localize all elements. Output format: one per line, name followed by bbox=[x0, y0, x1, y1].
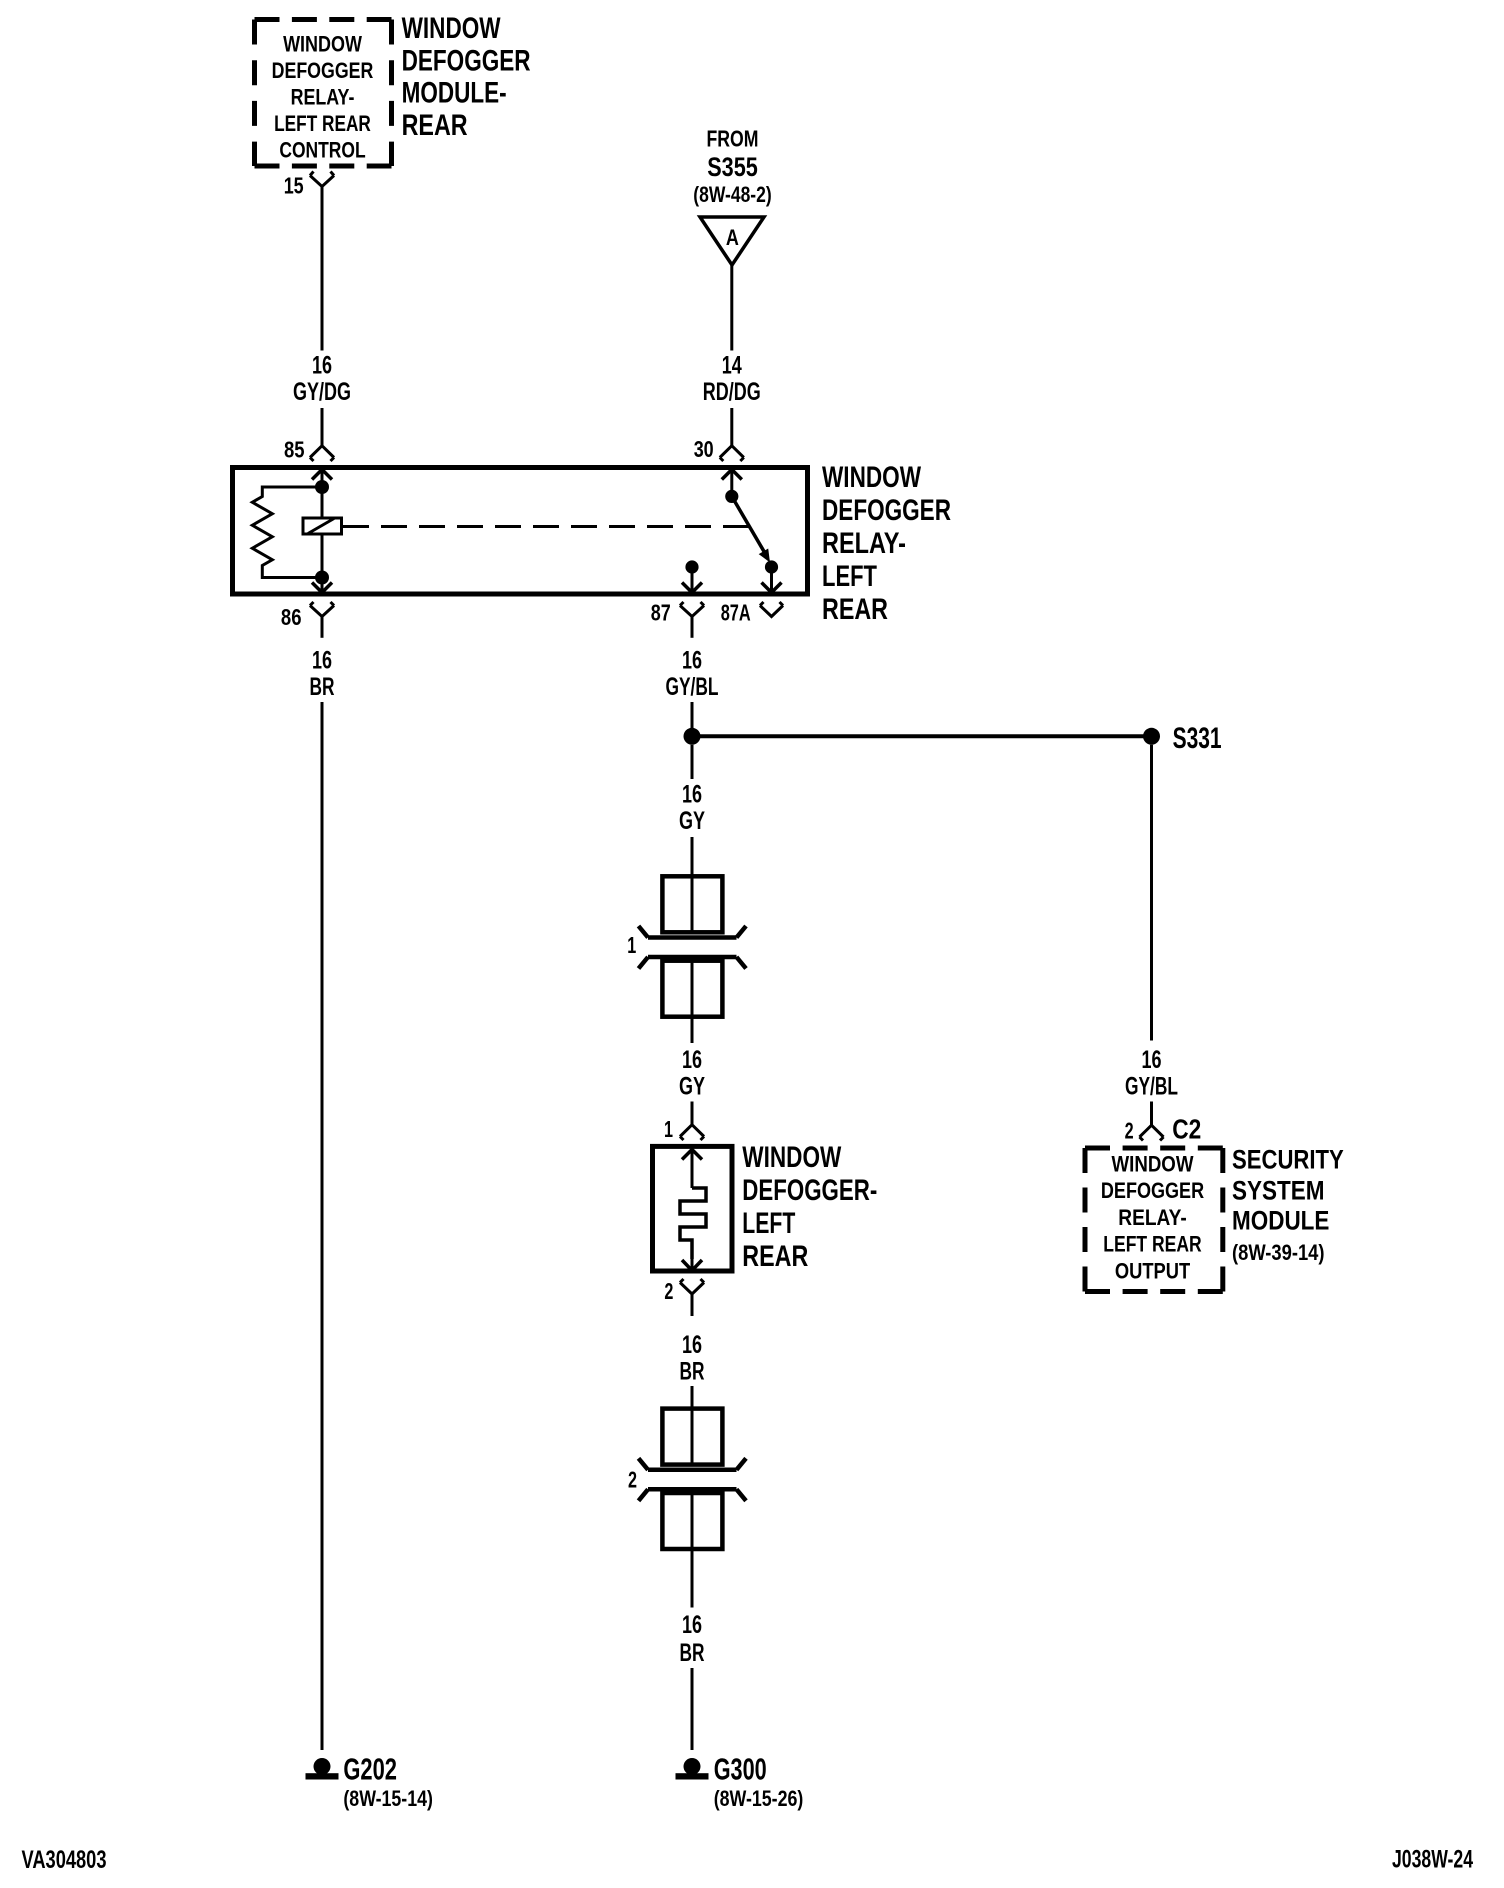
long wire to G202 bbox=[321, 702, 324, 1750]
defogger pin 2 connector bbox=[664, 1278, 704, 1316]
wire to connector 1 bbox=[691, 837, 694, 876]
pin 86 connector bbox=[281, 602, 334, 638]
svg-text:WINDOW: WINDOW bbox=[822, 461, 921, 494]
svg-text:GY/BL: GY/BL bbox=[666, 673, 719, 701]
pin 30 connector bbox=[694, 436, 744, 462]
svg-text:G202: G202 bbox=[343, 1752, 397, 1787]
security box internal text bbox=[1101, 1152, 1204, 1284]
dashed actuation link bbox=[343, 525, 749, 528]
svg-text:15: 15 bbox=[284, 173, 304, 199]
svg-text:DEFOGGER-: DEFOGGER- bbox=[742, 1174, 877, 1207]
splice triangle A bbox=[700, 217, 764, 265]
svg-text:BR: BR bbox=[680, 1358, 705, 1386]
wire pin15 to label 16 GY/DG bbox=[321, 187, 324, 351]
switch arm with arrowhead bbox=[732, 496, 770, 562]
pin 87 connector bbox=[651, 600, 704, 638]
svg-text:WINDOW: WINDOW bbox=[742, 1141, 841, 1174]
svg-text:DEFOGGER: DEFOGGER bbox=[1101, 1178, 1204, 1203]
wire to G300 bbox=[691, 1668, 694, 1750]
svg-text:2: 2 bbox=[664, 1278, 673, 1304]
contact dot 87A bbox=[765, 560, 778, 573]
svg-text:S355: S355 bbox=[707, 152, 758, 182]
svg-text:REAR: REAR bbox=[742, 1240, 808, 1273]
svg-text:(8W-39-14): (8W-39-14) bbox=[1232, 1240, 1325, 1265]
label: WINDOW DEFOGGER MODULE-REAR bbox=[402, 12, 531, 142]
inline connector 2 bbox=[628, 1409, 746, 1549]
svg-text:LEFT REAR: LEFT REAR bbox=[274, 111, 371, 136]
svg-text:BR: BR bbox=[310, 673, 335, 701]
svg-text:SECURITY: SECURITY bbox=[1232, 1145, 1344, 1175]
wire to pin 2 C2 bbox=[1150, 1102, 1153, 1126]
svg-text:16: 16 bbox=[312, 352, 332, 380]
wire label 16 GY/BL (center) bbox=[666, 647, 719, 702]
svg-text:DEFOGGER: DEFOGGER bbox=[272, 58, 374, 83]
pin 2 connector C2 bbox=[1125, 1114, 1202, 1145]
wire connector 1 down bbox=[691, 1017, 694, 1043]
wire label 16 BR (bottom) bbox=[680, 1611, 705, 1667]
junction dot 85 bbox=[315, 480, 329, 494]
svg-text:RELAY-: RELAY- bbox=[822, 527, 906, 560]
label: SECURITY SYSTEM MODULE (8W-39-14) bbox=[1232, 1145, 1344, 1265]
svg-text:16: 16 bbox=[682, 1611, 702, 1639]
module box internal text bbox=[272, 31, 374, 162]
wire label to pin 30 bbox=[730, 408, 733, 446]
svg-text:16: 16 bbox=[682, 1046, 702, 1074]
svg-text:14: 14 bbox=[722, 352, 742, 380]
wire label 14 RD/DG bbox=[703, 352, 761, 407]
wire label 16 BR (defogger) bbox=[680, 1331, 705, 1386]
svg-text:GY: GY bbox=[679, 1073, 705, 1101]
svg-text:CONTROL: CONTROL bbox=[279, 137, 365, 162]
svg-text:REAR: REAR bbox=[402, 109, 468, 142]
svg-text:GY/DG: GY/DG bbox=[293, 378, 351, 406]
splice S331 bbox=[684, 722, 1222, 755]
wire connector 2 down bbox=[691, 1549, 694, 1608]
svg-text:C2: C2 bbox=[1172, 1114, 1201, 1145]
wire label to splice S331 bbox=[691, 702, 694, 736]
87A internal wire bbox=[762, 567, 782, 593]
svg-text:SYSTEM: SYSTEM bbox=[1232, 1176, 1325, 1206]
label: WINDOW DEFOGGER-LEFT REAR bbox=[742, 1141, 877, 1273]
svg-text:RELAY-: RELAY- bbox=[1118, 1205, 1186, 1230]
svg-text:16: 16 bbox=[1142, 1046, 1162, 1074]
relay box: WINDOW DEFOGGER RELAY-LEFT REAR bbox=[233, 468, 808, 595]
svg-text:G300: G300 bbox=[714, 1752, 767, 1787]
svg-text:VA304803: VA304803 bbox=[22, 1846, 107, 1874]
svg-text:LEFT: LEFT bbox=[742, 1207, 795, 1240]
svg-text:(8W-15-26): (8W-15-26) bbox=[714, 1786, 804, 1811]
defogger grid element bbox=[680, 1149, 706, 1271]
svg-text:86: 86 bbox=[281, 604, 302, 630]
pin 85 connector bbox=[284, 437, 334, 463]
svg-text:16: 16 bbox=[682, 647, 702, 675]
wire label 16 BR (left) bbox=[310, 647, 335, 702]
svg-text:LEFT: LEFT bbox=[822, 560, 877, 593]
junction dot 86 bbox=[315, 571, 329, 585]
wire to defogger pin 1 bbox=[691, 1102, 694, 1126]
svg-text:WINDOW: WINDOW bbox=[283, 31, 362, 56]
svg-text:BR: BR bbox=[680, 1639, 705, 1667]
svg-text:FROM: FROM bbox=[707, 126, 759, 152]
resistor (coil suppression) bbox=[252, 487, 322, 578]
svg-text:GY: GY bbox=[679, 807, 705, 835]
defogger box: WINDOW DEFOGGER-LEFT REAR bbox=[653, 1146, 733, 1271]
ground G202 bbox=[306, 1752, 433, 1812]
svg-text:DEFOGGER: DEFOGGER bbox=[402, 44, 531, 77]
svg-text:RELAY-: RELAY- bbox=[291, 84, 355, 109]
wire to connector 2 bbox=[691, 1386, 694, 1409]
svg-text:16: 16 bbox=[682, 1331, 702, 1359]
svg-text:S331: S331 bbox=[1173, 722, 1222, 755]
svg-text:WINDOW: WINDOW bbox=[1112, 1152, 1194, 1177]
svg-text:MODULE: MODULE bbox=[1232, 1205, 1329, 1235]
svg-text:16: 16 bbox=[312, 647, 332, 675]
inline connector 1 bbox=[627, 876, 746, 1016]
FROM S355 (8W-48-2) reference bbox=[693, 126, 771, 208]
switch pivot dot bbox=[725, 490, 738, 503]
wire label 16 GY/DG bbox=[293, 352, 351, 407]
svg-text:(8W-48-2): (8W-48-2) bbox=[693, 182, 771, 207]
svg-text:MODULE-: MODULE- bbox=[402, 77, 507, 110]
svg-text:GY/BL: GY/BL bbox=[1125, 1073, 1178, 1101]
svg-text:WINDOW: WINDOW bbox=[402, 12, 501, 45]
wire S331 to security module bbox=[1150, 745, 1153, 1041]
svg-text:(8W-15-14): (8W-15-14) bbox=[343, 1786, 433, 1811]
relay coil branch internal wire bbox=[312, 469, 332, 594]
svg-text:J038W-24: J038W-24 bbox=[1392, 1846, 1473, 1874]
svg-text:OUTPUT: OUTPUT bbox=[1115, 1259, 1191, 1284]
87 internal wire bbox=[682, 567, 702, 593]
pin 87A connector bbox=[721, 600, 783, 626]
svg-text:A: A bbox=[726, 225, 739, 250]
wire label 16 GY bbox=[679, 781, 705, 836]
wire label 16 GY/BL (right) bbox=[1125, 1046, 1178, 1101]
svg-text:87: 87 bbox=[651, 600, 671, 626]
svg-text:DEFOGGER: DEFOGGER bbox=[822, 494, 951, 527]
defogger pin 1 connector bbox=[664, 1116, 704, 1142]
svg-text:2: 2 bbox=[1125, 1118, 1134, 1144]
wire label 16 GY (second) bbox=[679, 1046, 705, 1101]
security module box (dashed) bbox=[1085, 1148, 1223, 1292]
wire triangle to label 14 RD/DG bbox=[730, 265, 733, 351]
svg-text:LEFT REAR: LEFT REAR bbox=[1103, 1232, 1201, 1257]
wire S331 down bbox=[691, 745, 694, 779]
wire label to pin 85 bbox=[321, 408, 324, 446]
ground G300 bbox=[676, 1752, 804, 1812]
switch common wire from pin 30 bbox=[722, 469, 742, 497]
contact dot 87 bbox=[685, 560, 698, 573]
svg-text:REAR: REAR bbox=[822, 593, 888, 626]
label: WINDOW DEFOGGER RELAY-LEFT REAR bbox=[822, 461, 951, 626]
pin 15 connector bbox=[284, 172, 334, 199]
svg-text:85: 85 bbox=[284, 437, 305, 463]
svg-text:2: 2 bbox=[628, 1467, 637, 1493]
svg-text:RD/DG: RD/DG bbox=[703, 378, 761, 406]
svg-text:16: 16 bbox=[682, 781, 702, 809]
module box: WINDOW DEFOGGER RELAY-LEFT REAR CONTROL (dashed) bbox=[255, 20, 392, 167]
svg-text:1: 1 bbox=[664, 1116, 673, 1142]
svg-text:30: 30 bbox=[694, 436, 714, 462]
svg-text:87A: 87A bbox=[721, 600, 751, 626]
svg-text:1: 1 bbox=[627, 932, 636, 958]
relay coil symbol bbox=[303, 518, 342, 534]
